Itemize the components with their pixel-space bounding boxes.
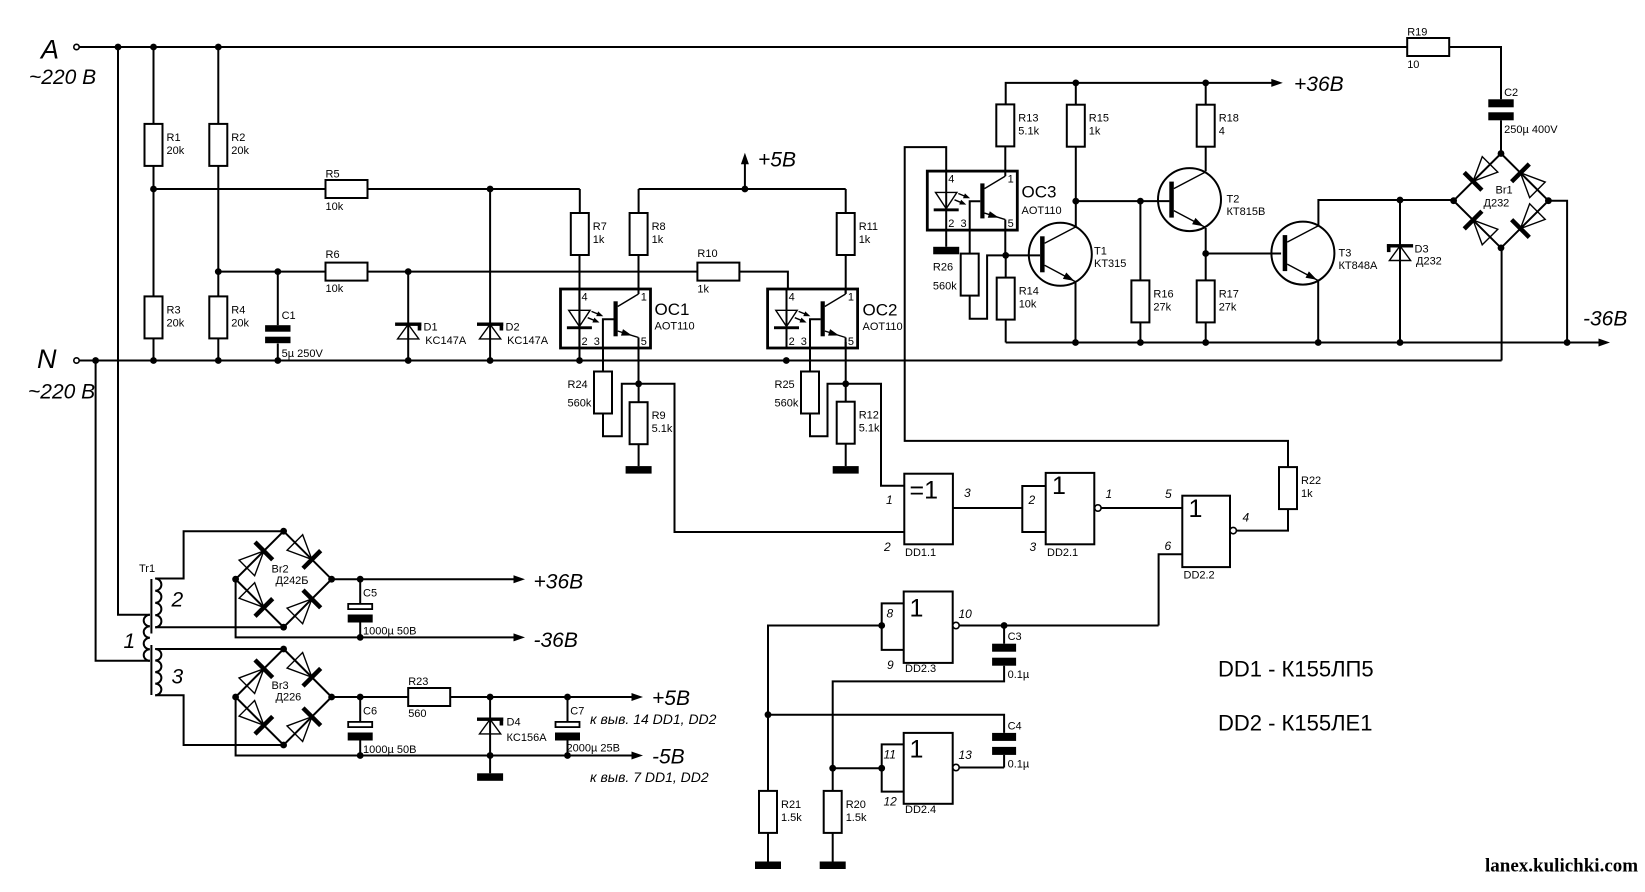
svg-text:3: 3 (964, 486, 971, 500)
capacitor C3 (992, 631, 1030, 681)
resistor R5 (326, 169, 368, 214)
wire Br1 arms (1454, 154, 1549, 248)
svg-text:DD2 - К155ЛЕ1: DD2 - К155ЛЕ1 (1218, 711, 1372, 736)
capacitor C1 (265, 310, 323, 360)
wire DD2.1 input tie (1022, 486, 1045, 532)
capacitor C2 (1488, 87, 1558, 136)
svg-text:20k: 20k (231, 317, 249, 329)
svg-text:2000µ 25В: 2000µ 25В (567, 743, 620, 755)
resistor R21 (759, 791, 802, 833)
svg-text:1.5k: 1.5k (846, 812, 867, 824)
node R21/C4 top (765, 711, 772, 718)
transformer Tr1 primary winding 1 (144, 615, 150, 661)
wire Br1 bottom to N rail (1501, 248, 1503, 361)
wire N to transformer primary bottom (96, 361, 150, 661)
node N/R3 (150, 357, 157, 364)
svg-text:250µ 400V: 250µ 400V (1504, 124, 1558, 136)
svg-text:1: 1 (641, 291, 647, 303)
wire C7 leads (567, 697, 569, 756)
node N/OC1 pin2 (576, 357, 583, 364)
svg-text:R25: R25 (775, 379, 795, 391)
node +5V out/C6 (357, 694, 364, 701)
node Br2 top (280, 528, 287, 535)
node T2 emitter/R17 (1202, 250, 1209, 257)
wire Br2 arms (236, 531, 332, 627)
svg-text:3: 3 (961, 218, 967, 230)
svg-text:R4: R4 (231, 304, 245, 316)
svg-text:Д232: Д232 (1416, 256, 1442, 268)
wire Br1 right to -36V rail (1548, 201, 1567, 343)
svg-text:5.1k: 5.1k (652, 423, 673, 435)
wire R16 leads (1139, 201, 1141, 342)
node -36V/T1 emitter (1072, 339, 1079, 346)
svg-text:Д242Б: Д242Б (276, 575, 309, 587)
node N/R4 (215, 357, 222, 364)
svg-text:DD2.4: DD2.4 (905, 804, 936, 816)
svg-text:5: 5 (1165, 487, 1172, 501)
node -5V out/D4 (487, 752, 494, 759)
resistor R8 (630, 213, 666, 255)
gate DD1.1 XOR K155LP5 (883, 474, 971, 559)
resistor R22 (1279, 467, 1321, 509)
node R5/R1-R3 (150, 186, 157, 193)
ground ground under R12 (833, 466, 859, 474)
svg-text:~220 В: ~220 В (29, 66, 96, 89)
arrow -36V output (514, 629, 578, 652)
optocoupler OC2 (768, 289, 858, 348)
svg-text:1000µ 50В: 1000µ 50В (363, 626, 416, 638)
svg-text:20k: 20k (231, 145, 249, 157)
svg-text:0.1µ: 0.1µ (1008, 759, 1030, 771)
svg-text:2: 2 (582, 336, 588, 348)
svg-text:R24: R24 (568, 379, 588, 391)
svg-text:2: 2 (171, 589, 184, 612)
wire R10 to OC2 segment handled in R6 rail (787, 271, 789, 273)
node R5/D2 (487, 186, 494, 193)
svg-text:5.1k: 5.1k (1018, 125, 1039, 137)
svg-text:560k: 560k (933, 281, 957, 293)
svg-text:1: 1 (124, 630, 136, 653)
wire D2 leads (489, 189, 491, 361)
arrow +5V supply (741, 149, 796, 172)
svg-text:1: 1 (1008, 173, 1014, 185)
bridge rectifier Br1 (1464, 156, 1546, 246)
wire C6 leads (359, 697, 361, 756)
resistor R26 (933, 254, 979, 296)
transistor T2 (1158, 168, 1221, 231)
wire +5V arrow stem (744, 163, 746, 189)
transformer Tr1 labels (124, 563, 184, 689)
wire R24 bottom loop (603, 384, 639, 437)
svg-text:OC1: OC1 (655, 300, 690, 319)
svg-text:C2: C2 (1504, 87, 1518, 99)
wire OC1 junction to DD1.1 pin2 (639, 384, 905, 532)
arrow -36V rail (1583, 308, 1627, 347)
svg-text:R6: R6 (326, 249, 340, 261)
wire C2 to Br1 top (1500, 120, 1502, 153)
svg-text:C6: C6 (363, 706, 377, 718)
svg-text:5: 5 (1008, 218, 1014, 230)
svg-text:Br3: Br3 (272, 680, 289, 692)
wire Br3 -5V output (236, 697, 633, 756)
svg-text:lanex.kulichki.com: lanex.kulichki.com (1485, 856, 1638, 877)
wire R20 lead (832, 768, 834, 791)
node Br3 top (280, 646, 287, 653)
wire C1 leads (277, 272, 279, 361)
node +5V out/D4 (487, 694, 494, 701)
svg-text:0.1µ: 0.1µ (1008, 669, 1030, 681)
svg-text:OC3: OC3 (1022, 183, 1057, 202)
svg-text:20k: 20k (167, 145, 185, 157)
svg-text:КТ815В: КТ815В (1227, 206, 1266, 218)
node -5V out/C6 (357, 752, 364, 759)
svg-text:4: 4 (948, 173, 954, 185)
resistor R2 (209, 124, 249, 166)
svg-text:4: 4 (582, 291, 588, 303)
node T1 collector/R15 (1072, 198, 1079, 205)
node +36V/R15 (1072, 80, 1079, 87)
svg-text:+36В: +36В (534, 571, 584, 594)
wire DD2.4 input wire (833, 767, 882, 769)
svg-text:T2: T2 (1227, 194, 1240, 206)
wire D4 ground stub (489, 756, 491, 774)
node -36V/T3 emitter (1315, 339, 1322, 346)
svg-text:DD1 - К155ЛП5: DD1 - К155ЛП5 (1218, 657, 1374, 682)
node A/R2 (215, 44, 222, 51)
node N/D2 (487, 357, 494, 364)
svg-text:R10: R10 (697, 248, 717, 260)
svg-text:D4: D4 (507, 717, 521, 729)
wire D4 leads (489, 697, 491, 756)
svg-text:R21: R21 (781, 799, 801, 811)
node DD2.3 out/C3 (1001, 622, 1008, 629)
svg-text:10k: 10k (326, 201, 344, 213)
node Br1 top (1498, 150, 1505, 157)
svg-text:12: 12 (884, 795, 898, 809)
wire OC3 pin4 feed from R22 net (905, 147, 1288, 467)
resistor R13 (996, 104, 1039, 146)
svg-text:KT315: KT315 (1094, 258, 1126, 270)
node OC2 pin5/R12 (842, 380, 849, 387)
svg-text:R26: R26 (933, 262, 953, 274)
wire T1 emitter lead (1075, 282, 1077, 343)
wire R11 branch OC2 pin1 (845, 189, 847, 294)
resistor R17 (1197, 280, 1239, 322)
resistor R23 (408, 676, 450, 720)
wire DD2.3 output wire (959, 625, 1158, 627)
resistor R20 (824, 791, 867, 833)
svg-text:3: 3 (801, 336, 807, 348)
svg-text:560k: 560k (775, 398, 799, 410)
svg-text:R22: R22 (1301, 475, 1321, 487)
svg-text:1k: 1k (697, 284, 709, 296)
node Br3 right (328, 694, 335, 701)
wire DD2.2 output to R22 (1236, 509, 1288, 530)
terminal N (74, 358, 79, 363)
optocoupler OC3 (927, 171, 1017, 230)
wire Br3 arms (236, 649, 332, 745)
gate DD2.2 NOR (1165, 495, 1250, 582)
resistor R18 (1197, 105, 1239, 147)
wire T3 collector to Br1 left node (1318, 200, 1453, 225)
wire R13 to OC3 pin1 (1004, 146, 1006, 171)
wire A to transformer primary top (118, 47, 150, 615)
node T2 base/R16 (1137, 198, 1144, 205)
svg-text:D3: D3 (1415, 244, 1429, 256)
svg-text:1k: 1k (593, 234, 605, 246)
svg-text:2: 2 (1028, 493, 1036, 507)
svg-text:2: 2 (948, 218, 954, 230)
svg-text:T1: T1 (1094, 246, 1107, 258)
svg-text:9: 9 (887, 658, 894, 672)
wire R2-R4 divider vertical (217, 47, 219, 361)
node DD2.4 input/R20/C3 (829, 765, 836, 772)
gate DD2.1 NOR K155LE1 (1028, 472, 1173, 559)
arrow +5V output (632, 687, 690, 710)
resistor R10 (697, 248, 739, 296)
svg-text:10: 10 (959, 607, 973, 621)
resistor R4 (209, 296, 249, 338)
zener diode D2 (477, 322, 549, 348)
wire winding3 top to Br3 top (155, 648, 283, 650)
svg-text:R1: R1 (167, 132, 181, 144)
svg-text:DD2.1: DD2.1 (1047, 547, 1078, 559)
wire R14 leads (1005, 255, 1007, 342)
svg-text:D2: D2 (506, 322, 520, 334)
wire DD2.4 output wire (959, 767, 1004, 769)
node +5V out/C7 (564, 694, 571, 701)
node Br1 bottom (1498, 245, 1505, 252)
node N/down-wire (92, 357, 99, 364)
node N/C1 (274, 357, 281, 364)
svg-text:5µ 250V: 5µ 250V (282, 348, 324, 360)
wire DD2.1 output to DD2.2 pin5 (1101, 507, 1182, 509)
svg-text:КC156A: КC156A (507, 732, 548, 744)
svg-text:1k: 1k (1301, 488, 1313, 500)
svg-text:DD1.1: DD1.1 (905, 547, 936, 559)
svg-text:-5В: -5В (652, 746, 685, 769)
svg-text:D1: D1 (424, 322, 438, 334)
resistor R25 (775, 372, 820, 414)
svg-text:к выв. 14 DD1, DD2: к выв. 14 DD1, DD2 (590, 711, 717, 727)
wire Br2 -36V output (236, 579, 515, 637)
resistor R3 (145, 296, 185, 338)
svg-text:R17: R17 (1219, 288, 1239, 300)
svg-text:R9: R9 (652, 410, 666, 422)
svg-text:+36В: +36В (1294, 73, 1344, 96)
svg-text:T3: T3 (1339, 248, 1352, 260)
node T3 collector/D3 (1397, 197, 1404, 204)
node N/D1 (405, 357, 412, 364)
bridge rectifier Br3 (238, 651, 321, 742)
ground ground under D4 (477, 773, 503, 781)
terminal A (74, 44, 79, 49)
node Br2 bottom (280, 624, 287, 631)
svg-text:2: 2 (883, 540, 891, 554)
svg-text:R23: R23 (408, 676, 428, 688)
wire -36V rail (1006, 342, 1601, 344)
bridge rectifier Br2 (238, 534, 321, 625)
wire DD2.2 pin6 feed (1159, 554, 1183, 625)
svg-text:560k: 560k (568, 398, 592, 410)
svg-text:13: 13 (959, 748, 973, 762)
svg-text:-36В: -36В (534, 629, 578, 652)
svg-text:1000µ 50В: 1000µ 50В (363, 744, 416, 756)
wire T2 base wire (1076, 200, 1170, 202)
wire R18 branch T2 collector (1205, 83, 1207, 171)
wire C4 coupling path (768, 715, 1004, 768)
wire +36V rail (1006, 83, 1272, 105)
svg-text:C3: C3 (1008, 631, 1022, 643)
wire R15 branch T1 collector (1075, 83, 1077, 227)
ground ground under R9 (626, 466, 652, 474)
svg-text:R3: R3 (167, 304, 181, 316)
zener diode D1 (395, 322, 467, 348)
wire DD2.4 input tie (882, 744, 904, 791)
svg-text:Br2: Br2 (272, 564, 289, 576)
resistor R16 (1131, 280, 1173, 322)
node Br2 right (328, 576, 335, 583)
resistor R15 (1067, 105, 1109, 147)
gate DD2.4 NOR (884, 733, 973, 816)
transistor T3 (1271, 222, 1334, 285)
svg-text:Д232: Д232 (1484, 198, 1510, 210)
wire R8 branch OC1 pin1 (638, 189, 640, 294)
svg-text:4: 4 (1219, 126, 1225, 138)
wire DD2.3 input tie (882, 603, 904, 650)
svg-text:1k: 1k (859, 234, 871, 246)
svg-text:1: 1 (886, 493, 893, 507)
svg-text:1k: 1k (652, 234, 664, 246)
svg-text:3: 3 (594, 336, 600, 348)
svg-text:N: N (37, 344, 57, 374)
wire R9 leads (638, 384, 640, 466)
wire OC3 pin3 to R26 (969, 230, 971, 254)
svg-text:DD2.3: DD2.3 (905, 663, 936, 675)
wire Br2 +36V output (332, 578, 515, 580)
node DD2.4 input tie (878, 765, 885, 772)
svg-text:3: 3 (172, 666, 184, 689)
svg-text:+5В: +5В (758, 149, 796, 172)
svg-text:AOT110: AOT110 (863, 321, 903, 333)
wire winding3 bottom to Br3 bottom (155, 695, 283, 745)
arrow -5V output (632, 746, 685, 769)
wire winding2 bottom to Br2 bottom (155, 626, 283, 628)
svg-text:10: 10 (1407, 59, 1419, 71)
svg-text:1.5k: 1.5k (781, 812, 802, 824)
wire D1 leads (407, 272, 409, 361)
zener diode D4 (477, 717, 547, 745)
svg-text:KC147A: KC147A (507, 335, 549, 347)
svg-text:6: 6 (1165, 539, 1172, 553)
svg-text:R2: R2 (231, 132, 245, 144)
svg-text:4: 4 (789, 291, 795, 303)
svg-text:R5: R5 (326, 169, 340, 181)
resistor R6 (326, 249, 368, 295)
resistor R12 (837, 402, 880, 444)
wire T3 emitter lead (1317, 281, 1319, 343)
svg-text:R11: R11 (859, 221, 878, 233)
node R6/R2-R4 (215, 268, 222, 275)
wire +5V rail (639, 188, 846, 190)
arrow +36V rail (1271, 73, 1343, 96)
node +5V arrow stem (742, 186, 749, 193)
svg-text:5.1k: 5.1k (859, 423, 880, 435)
transformer Tr1 secondary winding 3 (155, 649, 161, 695)
svg-text:20k: 20k (167, 317, 185, 329)
resistor R19 (1407, 26, 1449, 71)
wire OC1 pin3 to R24 (602, 348, 604, 372)
node -36V/R16 (1137, 339, 1144, 346)
node -36V/Br1 right (1564, 339, 1571, 346)
wire OC1 pin5 to junction (638, 342, 640, 384)
label neutral N terminal (28, 344, 95, 404)
svg-text:R13: R13 (1018, 112, 1038, 124)
resistor R11 (837, 213, 878, 255)
svg-text:КТ848А: КТ848А (1339, 260, 1378, 272)
node OC3 pin5/T1 base (1002, 252, 1009, 259)
wire C5 leads (359, 579, 361, 637)
wire R12 leads (845, 384, 847, 466)
svg-text:Br1: Br1 (1496, 185, 1513, 197)
svg-text:~220 В: ~220 В (28, 381, 95, 404)
wire D3 leads (1399, 200, 1401, 343)
svg-text:DD2.2: DD2.2 (1184, 570, 1215, 582)
wire T1 base wire (1006, 254, 1040, 256)
wire OC3 pin5 to base node (1004, 230, 1006, 256)
svg-text:OC2: OC2 (863, 301, 898, 320)
svg-text:10k: 10k (1019, 299, 1037, 311)
node +36V out/C5 (357, 576, 364, 583)
wire R26 bottom loop (970, 255, 1006, 318)
label phase A terminal (29, 35, 96, 90)
svg-text:1: 1 (1189, 495, 1203, 523)
wire C3 coupling path (833, 626, 1004, 769)
node Br2 left (232, 576, 239, 583)
wire Br3 +5V output (332, 696, 633, 698)
node -36V/D3 (1397, 339, 1404, 346)
ground ground OC3 pin2 (933, 247, 959, 255)
transformer Tr1 secondary winding 2 (155, 579, 161, 628)
svg-text:11: 11 (884, 748, 896, 762)
arrow +36V output (514, 571, 584, 594)
node Br3 bottom (280, 742, 287, 749)
capacitor C5 (348, 588, 417, 638)
svg-text:AOT110: AOT110 (1022, 205, 1062, 217)
node Br1 right (1545, 197, 1552, 204)
ground ground under R21 (755, 862, 781, 870)
resistor R14 (997, 278, 1039, 320)
resistor R24 (568, 372, 613, 414)
svg-text:5: 5 (641, 336, 647, 348)
svg-text:R16: R16 (1153, 288, 1173, 300)
ground ground under R20 (820, 862, 846, 870)
node N/OC2 pin2 (783, 357, 790, 364)
svg-text:C7: C7 (570, 706, 584, 718)
svg-text:3: 3 (1030, 540, 1037, 554)
svg-text:C4: C4 (1008, 721, 1022, 733)
svg-text:5: 5 (848, 336, 854, 348)
node A/R1 (150, 44, 157, 51)
svg-text:=1: =1 (910, 477, 939, 505)
svg-text:C1: C1 (282, 310, 296, 322)
zener diode D3 (1387, 244, 1442, 268)
svg-text:к выв. 7 DD1, DD2: к выв. 7 DD1, DD2 (590, 769, 709, 785)
wire R7 branch OC1 pin4 pin2 (579, 189, 581, 361)
capacitor C6 (348, 706, 417, 757)
wire R20 ground stub (832, 833, 834, 862)
svg-text:Tr1: Tr1 (139, 563, 155, 575)
